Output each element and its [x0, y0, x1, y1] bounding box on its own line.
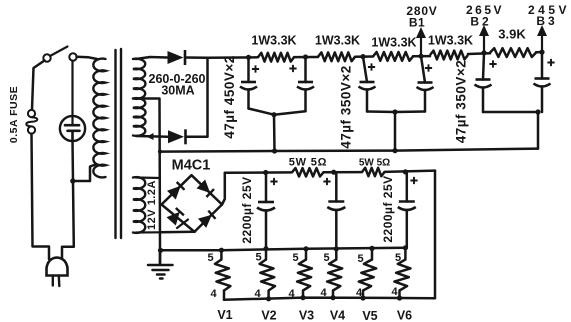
- label 265V B2: [466, 3, 504, 29]
- label V5: [362, 309, 377, 322]
- junction V1 top: [219, 248, 224, 253]
- svg-text:V5: V5: [362, 309, 377, 322]
- svg-text:V3: V3: [299, 309, 314, 322]
- pin 5 of V2: [255, 252, 261, 264]
- node H1: [263, 170, 268, 175]
- wire cap pair 2 bus: [367, 110, 425, 113]
- node H3: [403, 169, 408, 174]
- label 245V B3: [528, 3, 570, 28]
- junction mains-primary: [70, 178, 75, 183]
- pin 4 of V3: [288, 288, 295, 300]
- output arrow B1: [416, 27, 426, 54]
- pin 4 of V6: [391, 286, 398, 298]
- svg-text:1W3.3K: 1W3.3K: [251, 34, 296, 48]
- node C: [360, 54, 365, 59]
- capacitor C3 47uF: [359, 57, 376, 112]
- diode D1: [168, 50, 186, 65]
- polarity + of C4: [425, 64, 432, 71]
- label 12V 1.2A: [146, 180, 158, 230]
- pin 5 of V3: [292, 252, 298, 264]
- heater V4 filament: [327, 249, 342, 298]
- resistor R6 5W 5ohm: [292, 168, 324, 176]
- label V3: [299, 309, 314, 322]
- svg-text:5: 5: [395, 252, 401, 264]
- bridge diode top-left: [167, 182, 185, 200]
- capacitor C8 2200uF: [327, 172, 345, 249]
- pin 5 of V1: [207, 252, 213, 264]
- label M4C1: [172, 158, 211, 174]
- label R2 1W3.3K: [315, 34, 360, 48]
- capacitor C4 47uF: [417, 56, 434, 111]
- bridge diode bottom-left: [167, 208, 189, 228]
- label V2: [261, 309, 276, 322]
- transformer core: [116, 49, 122, 238]
- junction V4 bottom: [330, 295, 335, 300]
- svg-text:2200µf 25V: 2200µf 25V: [381, 175, 395, 242]
- wire bridge bottom to winding: [160, 231, 195, 234]
- wire pin4 rail: [224, 298, 435, 300]
- polarity + of C3: [368, 63, 375, 70]
- wire D2 riser: [186, 58, 208, 137]
- svg-text:47µf 350V×2: 47µf 350V×2: [454, 60, 469, 143]
- svg-text:5: 5: [323, 252, 329, 264]
- svg-text:0.5A FUSE: 0.5A FUSE: [8, 86, 20, 143]
- node A: [246, 55, 251, 60]
- label R7 5W 5ohm: [359, 158, 390, 169]
- label 260-0-260 30MA: [149, 72, 206, 98]
- svg-text:V6: V6: [397, 309, 412, 322]
- bridge diode bottom-right: [198, 211, 216, 228]
- resistor R5 3.9K: [490, 48, 536, 57]
- output arrow B3: [537, 25, 547, 50]
- junction V4 top: [334, 246, 339, 251]
- pin 5 of V6: [395, 252, 401, 264]
- polarity + of C6: [547, 59, 554, 66]
- capacitor C6 47uF: [534, 52, 551, 112]
- svg-text:5W 5Ω: 5W 5Ω: [359, 158, 390, 169]
- polarity + of C1: [252, 65, 259, 72]
- node D: [418, 54, 423, 59]
- node B: [303, 54, 308, 59]
- pin 4 of V1: [210, 288, 217, 300]
- resistor R3 1W3.3K: [373, 52, 413, 61]
- plug P1: [47, 258, 68, 287]
- capacitor C9 2200uF: [398, 172, 416, 248]
- label V1: [217, 308, 232, 322]
- wire pin5 rail: [160, 248, 405, 251]
- label R6 5W 5ohm: [289, 157, 328, 169]
- svg-text:1W3.3K: 1W3.3K: [428, 34, 473, 48]
- junction V6 top: [403, 245, 408, 250]
- wire center tap to ground rail: [137, 99, 160, 265]
- heater V1 filament: [215, 250, 230, 300]
- resistor R7 5W 5ohm: [362, 168, 385, 176]
- wire HV common bus: [160, 149, 538, 152]
- node E: [481, 50, 486, 55]
- junction V6 bottom: [397, 295, 402, 300]
- heater V6 filament: [394, 248, 410, 298]
- label R3 1W3.3K: [371, 36, 416, 50]
- svg-text:1W3.3K: 1W3.3K: [315, 34, 360, 48]
- bridge diode top-right: [197, 180, 215, 198]
- polarity + of C7: [270, 178, 277, 185]
- svg-text:B2: B2: [470, 15, 491, 29]
- wire heater + rail: [225, 171, 435, 173]
- capacitor C5 47uF: [475, 53, 492, 112]
- label V6: [397, 309, 412, 322]
- junction V2 bottom: [266, 296, 271, 301]
- wire cap pair 1 bus: [249, 109, 306, 115]
- wire pair2 drop: [394, 112, 397, 151]
- junction V5 top: [369, 246, 374, 251]
- capacitor C7 2200uF: [257, 173, 275, 249]
- label 47uF 350Vx2 a: [339, 65, 354, 148]
- label 0.5A FUSE: [8, 86, 20, 143]
- junction bus pair2: [392, 148, 397, 153]
- capacitor C1 47uF: [240, 57, 257, 108]
- svg-text:3.9K: 3.9K: [498, 27, 526, 42]
- svg-text:1W3.3K: 1W3.3K: [371, 36, 416, 50]
- wire heater right side: [434, 171, 437, 299]
- lamp pilot light: [60, 116, 85, 141]
- pin 4 of V2: [254, 288, 261, 300]
- node H2: [331, 170, 336, 175]
- junction bus-ctap: [158, 150, 162, 154]
- wire bridge + riser: [222, 173, 225, 205]
- label 2200uF 25V a: [240, 176, 254, 243]
- junction pair1: [271, 112, 276, 117]
- label R5 3.9K: [498, 27, 526, 42]
- transformer HV secondary lower half: [133, 98, 146, 136]
- svg-text:2200µf 25V: 2200µf 25V: [240, 176, 254, 243]
- svg-text:30MA: 30MA: [161, 84, 194, 98]
- wire cap pair 3 bus: [483, 111, 538, 114]
- wire pair1 drop: [273, 115, 276, 151]
- junction V3 top: [303, 246, 308, 251]
- svg-text:V4: V4: [330, 309, 345, 322]
- wire lamp to plug right: [62, 141, 74, 259]
- polarity + of C2: [289, 65, 296, 72]
- pin 5 of V5: [357, 253, 363, 265]
- junction V2 top: [263, 246, 268, 251]
- pin 5 of V4: [323, 252, 329, 264]
- svg-text:B1: B1: [409, 16, 425, 30]
- polarity + of C5: [489, 60, 496, 67]
- node F: [539, 50, 544, 55]
- label 280V B1: [406, 4, 437, 30]
- svg-text:5W 5Ω: 5W 5Ω: [289, 157, 328, 169]
- pin 4 of V4: [320, 287, 327, 299]
- label 47uF 350Vx2 b: [454, 60, 469, 143]
- svg-text:5: 5: [357, 253, 363, 265]
- resistor R1 1W3.3K: [258, 53, 294, 62]
- junction pair3: [535, 109, 540, 114]
- pin 4 of V5: [356, 287, 363, 299]
- svg-text:V1: V1: [217, 308, 232, 322]
- output arrow B2: [479, 25, 489, 51]
- wire secondary top to D1: [136, 57, 167, 59]
- transformer HV secondary upper half: [133, 59, 145, 99]
- bridge edge bottom-right: [195, 205, 223, 232]
- wire switch to lamp: [71, 61, 73, 116]
- wire mains hot: switch to fuse: [32, 61, 45, 110]
- svg-text:M4C1: M4C1: [172, 158, 211, 174]
- junction V3 bottom: [300, 295, 305, 300]
- wire fuse to plug left: [32, 134, 50, 259]
- svg-text:4: 4: [210, 288, 217, 300]
- wire primary return hook: [73, 165, 96, 182]
- ground symbol: [148, 265, 173, 279]
- polarity + of C8: [323, 178, 330, 185]
- label 47uF 450Vx2: [222, 55, 237, 138]
- label R1 1W3.3K: [251, 34, 296, 48]
- svg-text:B3: B3: [536, 14, 557, 28]
- diode D2: [168, 129, 186, 144]
- label 2200uF 25V b: [381, 175, 395, 242]
- resistor R4 1W3.3K: [430, 51, 468, 60]
- svg-text:47µf 450V×2: 47µf 450V×2: [222, 55, 237, 138]
- heater V2 filament: [260, 249, 275, 299]
- svg-text:5: 5: [255, 252, 261, 264]
- label R4 1W3.3K: [428, 34, 473, 48]
- junction mid ground: [158, 248, 163, 253]
- svg-text:12V 1.2A: 12V 1.2A: [146, 180, 158, 230]
- heater V5 filament: [359, 248, 376, 298]
- svg-text:5: 5: [292, 252, 298, 264]
- polarity + of C9: [410, 177, 417, 184]
- wire pair3 drop: [537, 112, 540, 149]
- junction pair2: [392, 109, 397, 114]
- switch S1: [43, 47, 76, 62]
- transformer 12V heater winding: [133, 177, 160, 233]
- bridge edge top-right: [192, 175, 223, 204]
- svg-text:4: 4: [391, 286, 398, 298]
- bridge edge top-left: [162, 175, 192, 204]
- wire ground stub: [159, 250, 162, 264]
- wire secondary bottom to D2: [137, 133, 169, 140]
- heater V3 filament: [297, 249, 312, 298]
- svg-text:V2: V2: [261, 309, 276, 322]
- bridge edge bottom-left: [162, 205, 195, 232]
- transformer T1 primary winding: [77, 57, 106, 178]
- svg-text:47µf 350V×2: 47µf 350V×2: [339, 65, 354, 148]
- junction V5 bottom: [360, 295, 365, 300]
- label V4: [330, 309, 345, 322]
- wire B+ rail segments: [208, 52, 542, 58]
- wire D1 to rail: [186, 56, 209, 59]
- svg-text:5: 5: [207, 252, 213, 264]
- capacitor C2 47uF: [297, 57, 314, 111]
- resistor R2 1W3.3K: [318, 52, 355, 61]
- junction bus pair1: [272, 148, 277, 153]
- fuse F1 0.5A: [26, 110, 37, 134]
